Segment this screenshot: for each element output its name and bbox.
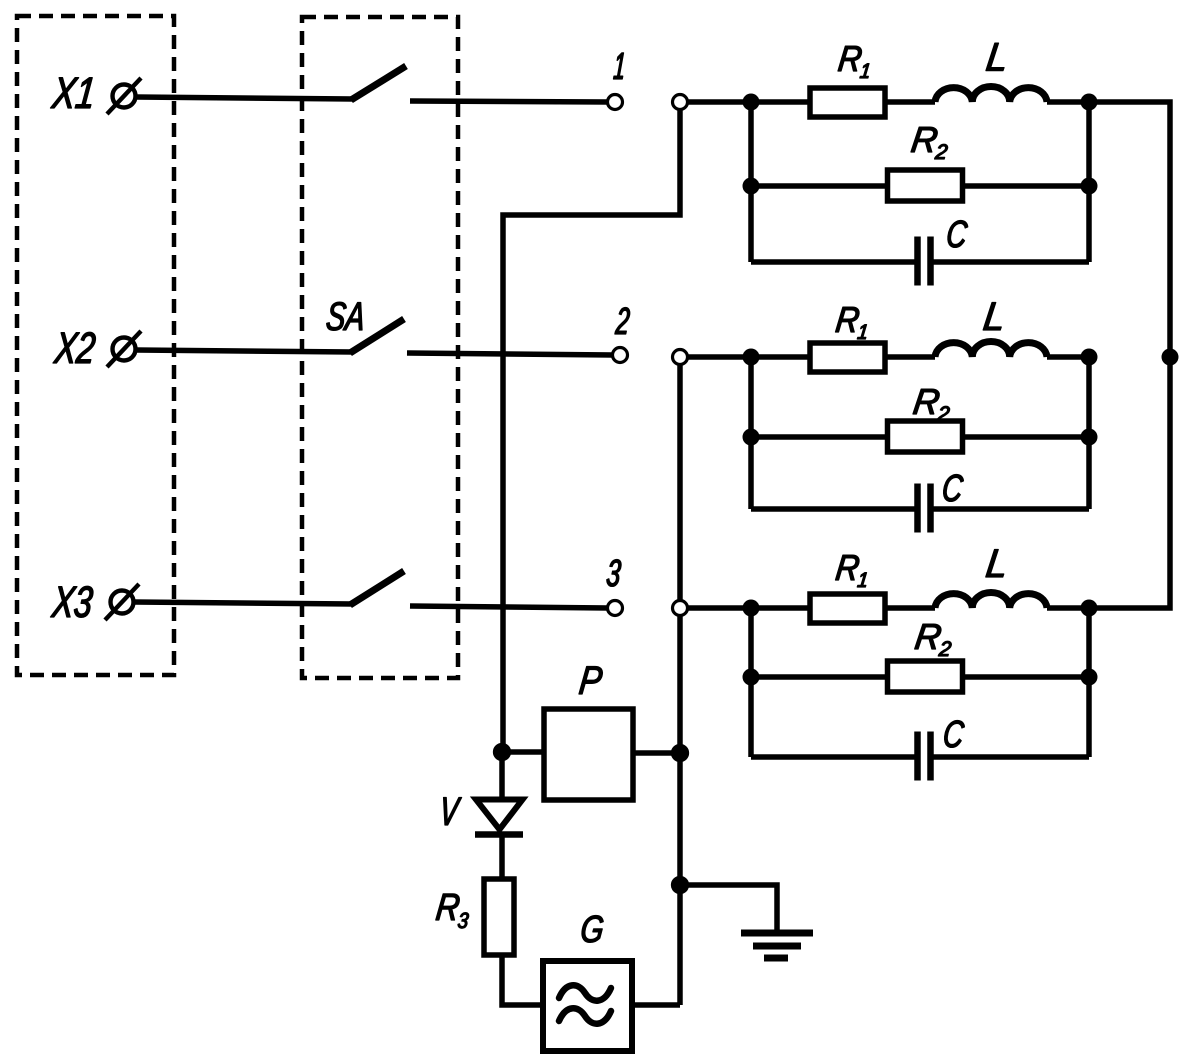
label R1 net2 (836, 307, 867, 339)
label SA (327, 302, 362, 330)
capacitor C net1 (918, 237, 931, 286)
node dot bus ground (672, 877, 689, 894)
node dots net3 (743, 600, 1098, 686)
label R3 (436, 894, 469, 928)
inductor L net3 (935, 593, 1047, 609)
label L net3 (986, 550, 1004, 578)
generator wave 1 (559, 985, 611, 1000)
node plug 3 (673, 601, 688, 616)
node plug 2 (673, 350, 688, 365)
wire C row 1 right (930, 259, 1089, 265)
wire X1 to switch (136, 97, 353, 99)
switch SA pole 2 blade (350, 319, 404, 353)
wire G right (632, 1002, 680, 1008)
wire plug3 to node (687, 605, 751, 611)
wire switch to terminal 1 (410, 101, 608, 102)
node dots net1 (743, 94, 1098, 195)
capacitor C net2 (918, 484, 931, 533)
resistor R1 net3 (810, 594, 885, 623)
wire P right (633, 750, 680, 756)
wire C row 2 left (751, 506, 918, 512)
label R2 (911, 127, 948, 159)
generator box G (543, 961, 632, 1051)
right branch vertical 3 (1086, 608, 1092, 757)
connector block dashed box X (17, 16, 174, 675)
node terminal 2 (613, 348, 628, 363)
label 2 (615, 308, 630, 335)
resistor R1 net2 (810, 343, 885, 372)
label R1 (838, 46, 869, 78)
left branch vertical 3 (748, 608, 754, 757)
resistor R1 net1 (810, 88, 885, 117)
wire C row 3 right (930, 754, 1089, 760)
label X3 (51, 586, 93, 617)
label C net3 (945, 721, 965, 748)
label 3 (607, 560, 621, 587)
wire C row 1 left (751, 259, 918, 265)
wire after L row 2 (1047, 354, 1089, 360)
right branch vertical 2 (1086, 357, 1092, 509)
wire plug1 to node (687, 99, 751, 105)
wire plug2 to node (687, 354, 751, 360)
terminal X2 (107, 331, 141, 367)
wire to ground (680, 885, 777, 933)
wire R2 row 2 (751, 434, 1089, 440)
label C (948, 221, 968, 248)
terminal X3 (105, 584, 139, 620)
generator wave 2 (559, 1008, 611, 1023)
node dot feeder left (494, 744, 511, 761)
resistor R2 net2 (888, 421, 963, 452)
ground (741, 933, 813, 958)
label L (986, 43, 1004, 71)
right branch vertical 1 (1086, 102, 1092, 262)
wire C row 2 right (930, 506, 1089, 512)
left branch vertical 1 (748, 102, 754, 262)
label 1 (614, 53, 624, 79)
wire R2 row 3 (751, 674, 1089, 680)
label L net2 (983, 303, 1001, 331)
wire right bus (1089, 102, 1170, 608)
wire common bus vertical (677, 359, 683, 1005)
switch SA pole 3 blade (350, 571, 404, 605)
label P (579, 667, 602, 695)
wire R2 row 1 (751, 183, 1089, 189)
switch SA pole 1 blade (351, 66, 406, 100)
switch block dashed box SA (302, 17, 458, 678)
terminal X1 (107, 78, 141, 114)
wire main row 1 (751, 99, 935, 105)
node dot bus P (672, 745, 689, 762)
left branch vertical 2 (748, 357, 754, 509)
node plug 1 (673, 95, 688, 110)
wire phase 1 drop to feeder (503, 104, 680, 752)
wire P left (502, 749, 544, 755)
label X1 (51, 78, 93, 108)
wire switch to terminal 2 (407, 353, 613, 355)
resistor R3 (484, 879, 514, 955)
label G (582, 916, 603, 943)
instrument box P (544, 709, 633, 800)
wire X2 to switch (136, 350, 353, 352)
wire X3 to switch (134, 602, 353, 604)
wire main row 2 (751, 354, 935, 360)
wire C row 3 left (751, 754, 918, 760)
label V (444, 798, 462, 826)
label R2 net2 (913, 389, 950, 421)
inductor L net2 (935, 342, 1047, 358)
wire after L row 3 (1047, 605, 1089, 611)
node dots net2 (743, 349, 1179, 446)
wire main row 3 (751, 605, 935, 611)
resistor R2 net3 (888, 661, 963, 692)
node terminal 1 (608, 95, 623, 110)
inductor L net1 (935, 86, 1047, 102)
label C net2 (944, 475, 964, 502)
wire after L row 1 (1047, 99, 1089, 105)
wire R3 to G (502, 955, 540, 1005)
label R1 net3 (836, 555, 867, 587)
resistor R2 net1 (888, 170, 963, 201)
capacitor C net3 (918, 732, 931, 781)
node terminal 3 (608, 601, 623, 616)
diode V (475, 752, 523, 879)
label X2 (53, 332, 95, 363)
wire switch to terminal 3 (410, 606, 608, 608)
label R2 net3 (915, 624, 952, 656)
